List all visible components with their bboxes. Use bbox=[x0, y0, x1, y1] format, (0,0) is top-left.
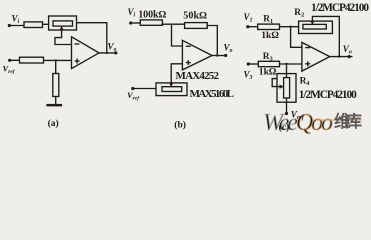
plus sign (c) bbox=[305, 63, 310, 65]
resistor 100k (b) bbox=[140, 20, 162, 25]
label R4 (c) bbox=[300, 76, 310, 87]
wiper arrowhead R4 (c) bbox=[280, 85, 285, 89]
wire Vi to 100k (b) bbox=[131, 22, 142, 24]
svg-text:MAX5160L: MAX5160L bbox=[190, 88, 235, 100]
minus sign (b) bbox=[186, 45, 191, 47]
wire V1 to R1 (c) bbox=[248, 26, 259, 28]
label R3 (c) bbox=[263, 52, 273, 63]
wire plus node down (a) bbox=[55, 60, 57, 74]
node Vref terminal (c) bbox=[285, 112, 288, 115]
op-amp A1 (a) bbox=[72, 37, 100, 69]
svg-text:(c): (c) bbox=[279, 122, 290, 133]
label MAX5160L (b) bbox=[190, 88, 235, 100]
wire 50k to output vertical (b) bbox=[207, 26, 218, 56]
node V1 terminal (c) bbox=[246, 25, 249, 28]
label 1k R1 (c) bbox=[261, 30, 279, 41]
minus sign (a) bbox=[74, 43, 79, 45]
wire R4 to Vref (c) bbox=[286, 98, 288, 114]
label 50k (b) bbox=[183, 11, 207, 22]
label 1/2MCP42100 top (c) bbox=[311, 2, 369, 14]
label R1 (c) bbox=[263, 15, 273, 26]
potentiometer package box (a) bbox=[49, 16, 77, 30]
svg-text:(b): (b) bbox=[174, 120, 186, 131]
label V1 (c) bbox=[244, 12, 253, 24]
junction feedback/output (c) bbox=[338, 55, 340, 57]
junction feedback/output (b) bbox=[216, 54, 218, 56]
resistor input (a) bbox=[24, 22, 43, 28]
node Vi terminal (a) bbox=[8, 24, 11, 27]
label (a) bbox=[48, 118, 59, 129]
minus sign (c) bbox=[305, 47, 310, 49]
resistor to ground (a) bbox=[53, 74, 59, 97]
resistor R3 (c) bbox=[258, 61, 279, 66]
digital pot package MAX5160L (b) bbox=[156, 83, 187, 96]
node Vo terminal (b) bbox=[224, 54, 227, 57]
wire resistor to plus input (a) bbox=[43, 59, 72, 61]
watermark bbox=[263, 110, 363, 136]
node Vo terminal (c) bbox=[348, 55, 351, 58]
label Vi (b) bbox=[128, 7, 136, 19]
label 100k (b) bbox=[138, 9, 166, 20]
digital pot package R2 (c) bbox=[299, 21, 333, 33]
wiper R2 wire to output (c) bbox=[312, 16, 339, 56]
wire plus input to wiper (b) bbox=[171, 64, 182, 85]
svg-text:1/2MCP42100: 1/2MCP42100 bbox=[311, 2, 369, 14]
svg-text:100kΩ: 100kΩ bbox=[138, 9, 166, 20]
wire minus node down to minus input (c) bbox=[291, 27, 302, 48]
svg-text:1kΩ: 1kΩ bbox=[261, 30, 279, 41]
junction plus node (a) bbox=[55, 59, 57, 61]
junction minus node (c) bbox=[289, 26, 291, 28]
svg-text:维库: 维库 bbox=[334, 111, 363, 131]
label R2 (c) bbox=[294, 8, 304, 19]
pot resistor R4 (c) bbox=[284, 78, 290, 98]
junction feedback/output (a) bbox=[106, 52, 108, 54]
junction plus node (c) bbox=[285, 63, 287, 65]
wiper arrowhead R2 (c) bbox=[310, 21, 314, 26]
wire Vi to input resistor (a) bbox=[9, 25, 25, 27]
resistor Vref (a) bbox=[20, 57, 44, 63]
node V3 terminal (c) bbox=[247, 62, 250, 65]
label Vref (c) bbox=[291, 110, 305, 122]
wire R1 to R2 box (c) bbox=[279, 26, 299, 28]
digital pot package R4 (c) bbox=[277, 74, 296, 103]
svg-text:MAX4252: MAX4252 bbox=[176, 70, 220, 82]
pot resistor (b) bbox=[162, 87, 182, 92]
ground (a) bbox=[46, 104, 62, 107]
wiper arrow (a) bbox=[55, 28, 72, 45]
output wire (a) bbox=[99, 52, 117, 54]
label V3 (c) bbox=[244, 70, 253, 82]
output wire (c) bbox=[330, 56, 353, 58]
wiper R4 (c) bbox=[272, 79, 282, 87]
wire R3 to plus input (c) bbox=[279, 63, 302, 65]
label Vo (a) bbox=[108, 42, 117, 54]
potentiometer resistor (a) bbox=[53, 21, 73, 26]
label Vo (b) bbox=[224, 43, 233, 55]
plus sign (a) bbox=[75, 60, 80, 62]
feedback wire box to output (a) bbox=[77, 23, 107, 53]
output wire (b) bbox=[212, 55, 227, 57]
op-amp (c) bbox=[302, 42, 330, 71]
node Vref terminal (b) bbox=[131, 87, 134, 90]
node Vref terminal (a) bbox=[8, 59, 11, 62]
wiper arrowhead (b) bbox=[169, 83, 173, 88]
node Vo terminal (a) bbox=[114, 51, 117, 54]
op-amp MAX4252 (b) bbox=[182, 40, 212, 70]
label (b) bbox=[174, 120, 186, 131]
svg-text:WeeQoo: WeeQoo bbox=[263, 110, 333, 136]
resistor 50k feedback (b) bbox=[185, 23, 208, 29]
label 1/2MCP42100 bottom (c) bbox=[299, 89, 357, 101]
label 1k R3 (c) bbox=[259, 66, 277, 77]
svg-text:1kΩ: 1kΩ bbox=[259, 66, 277, 77]
label Vref (a) bbox=[3, 64, 16, 76]
wire Vref to resistor (a) bbox=[10, 59, 21, 61]
label Vi (a) bbox=[12, 14, 20, 26]
wire junction down to minus input (b) bbox=[172, 24, 183, 46]
label (c) bbox=[279, 122, 290, 133]
node Vi terminal (b) bbox=[129, 21, 132, 24]
wire plus node down to R4 (c) bbox=[286, 64, 288, 79]
wire V3 to R3 (c) bbox=[248, 63, 259, 65]
wire Vref to pot (b) bbox=[133, 88, 156, 90]
wire resistor to ground (a) bbox=[55, 97, 57, 105]
label MAX4252 (b) bbox=[176, 70, 220, 82]
pot resistor R2 (c) bbox=[303, 24, 326, 29]
wire 100k to 50k (b) bbox=[162, 23, 186, 25]
svg-text:1/2MCP42100: 1/2MCP42100 bbox=[299, 89, 357, 101]
plus sign (b) bbox=[186, 62, 191, 64]
label Vref (b) bbox=[127, 90, 140, 102]
resistor R1 (c) bbox=[258, 24, 280, 29]
label Vo (c) bbox=[343, 44, 352, 56]
svg-text:50kΩ: 50kΩ bbox=[183, 11, 207, 22]
wire resistor to pot box (a) bbox=[42, 23, 49, 25]
svg-text:(a): (a) bbox=[48, 118, 59, 129]
